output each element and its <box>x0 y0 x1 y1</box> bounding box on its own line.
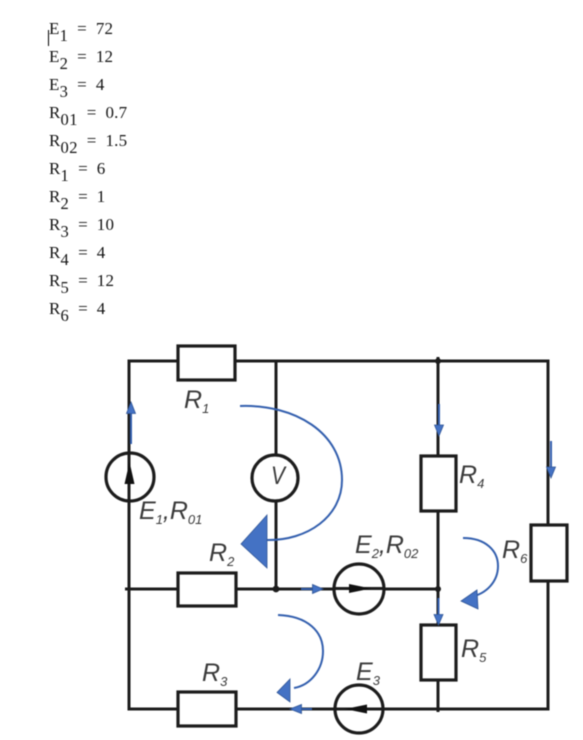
loop arrow mesh 2 (right small arc) <box>461 538 498 609</box>
svg-text:R3: R3 <box>202 659 228 689</box>
svg-text:V: V <box>271 462 287 490</box>
svg-text:R1: R1 <box>184 386 209 416</box>
source E2,R02 <box>334 564 384 614</box>
wire voltmeter branch <box>275 361 278 592</box>
wire right <box>547 360 550 711</box>
resistor R5 <box>421 625 456 680</box>
source E1,R01 <box>106 453 154 501</box>
svg-text:E3: E3 <box>356 658 381 688</box>
text cursor <box>48 30 50 46</box>
resistor R1 <box>178 346 235 380</box>
junction dot at R4 branch / top wire <box>435 358 441 364</box>
current arrow down on right wire <box>547 441 556 478</box>
resistor R2 <box>178 573 236 606</box>
wire bottom <box>128 708 550 711</box>
loop arrow mesh 3 (bottom arc) <box>277 615 323 702</box>
svg-text:R5: R5 <box>461 635 487 665</box>
svg-text:E1,R01: E1,R01 <box>139 497 202 527</box>
current arrow left on bottom wire <box>290 705 312 714</box>
wire left <box>128 360 131 711</box>
loop arrow mesh 1 (large arc with big arrowhead) <box>240 406 342 568</box>
svg-text:R4: R4 <box>459 461 484 491</box>
junction dot at middle wire / R4-R5 branch <box>435 586 441 592</box>
svg-text:R2: R2 <box>209 539 235 569</box>
junction dot at V branch / middle wire <box>273 586 280 593</box>
parameter list text block <box>49 15 127 323</box>
current arrow up on left wire <box>127 402 136 444</box>
current arrow down on R5 branch <box>434 598 443 625</box>
wire top <box>128 360 550 363</box>
resistor R6 <box>531 525 567 581</box>
wire middle <box>125 588 440 591</box>
svg-text:E2,R02: E2,R02 <box>355 531 419 561</box>
current arrow right on middle wire <box>301 585 323 594</box>
resistor R3 <box>178 692 236 726</box>
wire R4-R5 branch <box>437 357 440 712</box>
resistor R4 <box>421 456 456 511</box>
source E3 <box>335 685 383 733</box>
voltmeter V <box>252 455 298 501</box>
current arrow down on R4 branch <box>435 404 444 436</box>
svg-text:R6: R6 <box>502 536 528 566</box>
